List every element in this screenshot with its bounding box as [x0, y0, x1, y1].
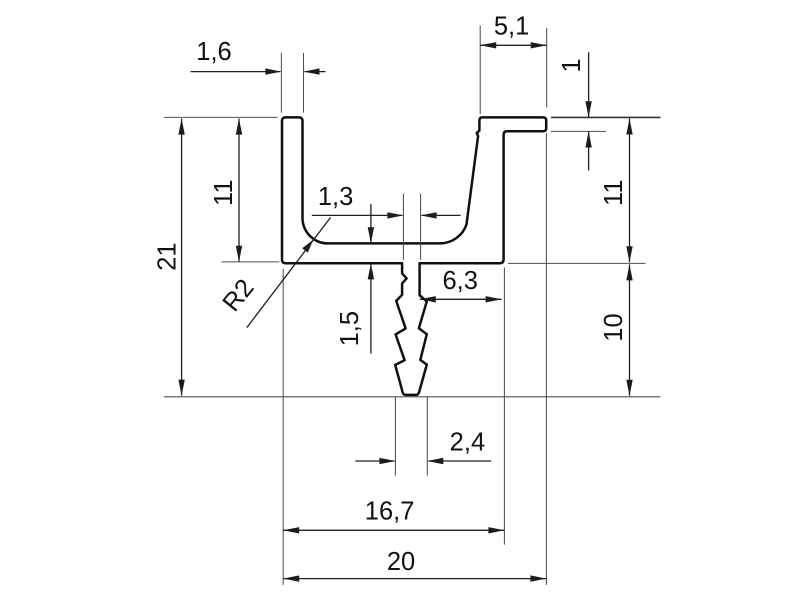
svg-text:11: 11	[600, 179, 628, 205]
svg-text:6,3: 6,3	[442, 267, 477, 295]
svg-text:5,1: 5,1	[494, 12, 529, 40]
svg-text:1: 1	[558, 58, 586, 72]
svg-text:21: 21	[153, 242, 181, 270]
svg-text:11: 11	[210, 179, 238, 205]
svg-text:20: 20	[387, 548, 415, 576]
svg-text:1,3: 1,3	[318, 183, 353, 211]
svg-text:1,6: 1,6	[196, 38, 231, 66]
svg-text:10: 10	[600, 313, 628, 341]
svg-text:2,4: 2,4	[450, 429, 485, 457]
svg-text:16,7: 16,7	[365, 497, 415, 525]
svg-text:1,5: 1,5	[336, 311, 364, 346]
